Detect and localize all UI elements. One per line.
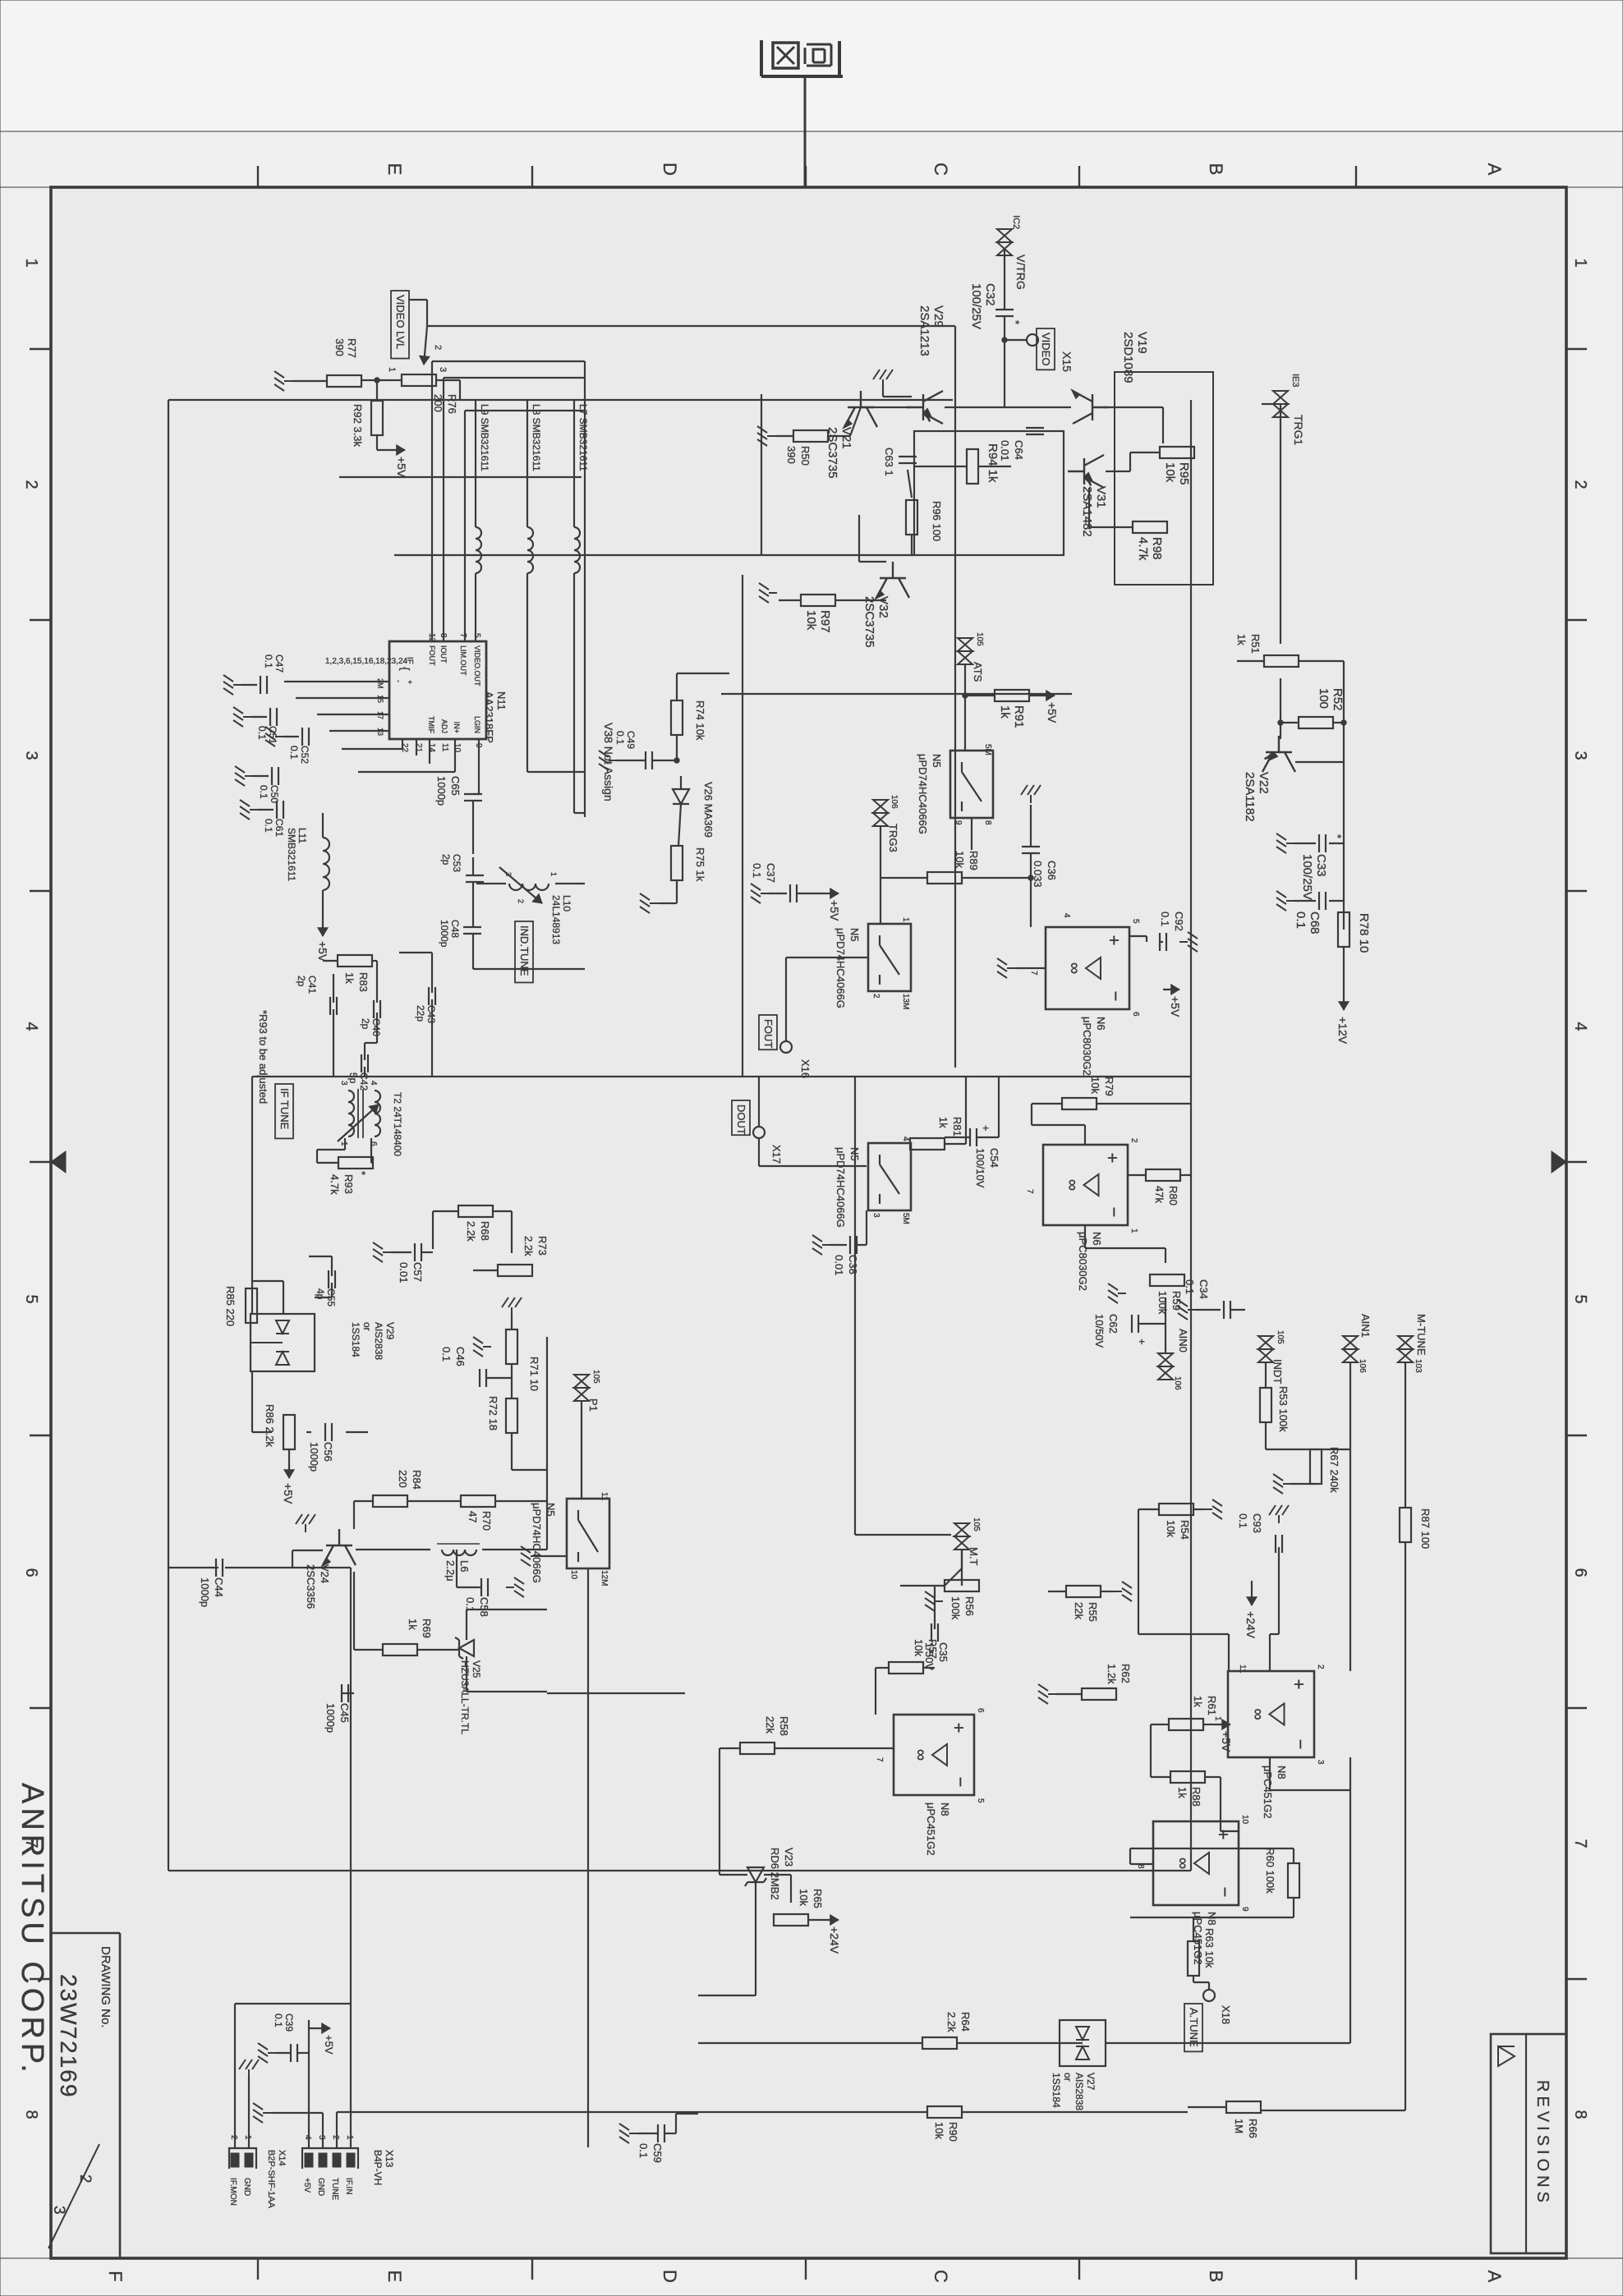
svg-text:FOUT: FOUT [762, 1019, 775, 1048]
svg-text:8: 8 [22, 2110, 40, 2119]
svg-text:AIS2838: AIS2838 [373, 1322, 384, 1360]
power +24V N8c [1251, 1581, 1253, 1605]
svg-text:5M: 5M [901, 1213, 910, 1224]
svg-text:0.1: 0.1 [1294, 912, 1308, 929]
wires R71/R72 [511, 1314, 513, 1329]
svg-text:C37: C37 [765, 863, 777, 883]
capacitor C35 1/50V [937, 1623, 939, 1642]
svg-text:2SA1213: 2SA1213 [917, 305, 931, 356]
svg-text:1: 1 [339, 1141, 348, 1146]
resistor R83 1k [338, 955, 372, 967]
svg-text:10k: 10k [1165, 1520, 1177, 1537]
svg-text:105: 105 [972, 1518, 981, 1531]
inductor L6 2.2u [442, 1550, 476, 1555]
wires N6a [1129, 935, 1147, 937]
svg-text:1000p: 1000p [439, 920, 450, 948]
resistor R87 100 [1400, 1508, 1411, 1542]
wire V21 base to R50, ground [828, 435, 850, 437]
svg-text:R98: R98 [1150, 537, 1164, 560]
svg-text:C93: C93 [1251, 1513, 1263, 1533]
svg-text:∞: ∞ [1064, 1179, 1082, 1191]
svg-text:4: 4 [1571, 1022, 1589, 1031]
svg-text:TRG3: TRG3 [887, 824, 899, 852]
svg-text:X14: X14 [277, 2150, 287, 2166]
svg-text:+: + [1289, 1679, 1309, 1690]
svg-text:9: 9 [1240, 1907, 1249, 1912]
svg-text:C: C [931, 2270, 951, 2283]
svg-text:−: − [1215, 1887, 1235, 1898]
svg-text:1: 1 [901, 917, 910, 922]
svg-text:6: 6 [1131, 1012, 1140, 1017]
svg-text:REVISIONS: REVISIONS [1533, 2080, 1552, 2206]
svg-text:5M: 5M [983, 744, 992, 755]
inductor L11 SMB321611 [323, 838, 329, 890]
svg-text:+: + [980, 1125, 992, 1132]
svg-text:IF TUNE: IF TUNE [278, 1088, 291, 1130]
wire X14 pin1 GND [248, 2078, 250, 2148]
capacitor C37 0.1 [796, 884, 798, 902]
svg-text:V38 Not Assign: V38 Not Assign [602, 723, 615, 801]
svg-text:C36: C36 [1046, 861, 1058, 880]
svg-text:1k: 1k [1176, 1787, 1189, 1798]
wires V26 cluster [676, 673, 678, 700]
svg-text:1: 1 [549, 872, 558, 876]
svg-text:X17: X17 [770, 1145, 783, 1164]
capacitor C48 1000p [463, 926, 481, 928]
power +5V C37 [822, 893, 839, 894]
power +12V [1343, 947, 1345, 985]
svg-text:4.7k: 4.7k [1136, 537, 1150, 561]
resistor R95 10k [1160, 447, 1194, 458]
svg-text:1: 1 [22, 258, 40, 267]
svg-text:C38: C38 [847, 1255, 859, 1274]
wire pot top to x487 bus [435, 379, 460, 381]
svg-text:IOUT: IOUT [439, 645, 448, 664]
svg-text:E: E [384, 2271, 405, 2283]
resistor R55 22k [1066, 1586, 1101, 1597]
svg-text:C33: C33 [1314, 854, 1328, 877]
svg-text:106: 106 [890, 795, 899, 809]
svg-text:1,2,3,6,15,16,18,23,24: 1,2,3,6,15,16,18,23,24 [325, 657, 408, 666]
svg-text:L11: L11 [297, 828, 308, 843]
svg-text:HZU3ALL-TR.TL: HZU3ALL-TR.TL [459, 1660, 471, 1734]
svg-text:0.1: 0.1 [751, 863, 763, 878]
vertical wire x581 [339, 476, 582, 478]
wires coils right [573, 573, 575, 813]
svg-text:2: 2 [433, 345, 443, 350]
svg-text:2SA1182: 2SA1182 [1243, 772, 1257, 822]
dual diode V27 AIS2838/1SS184 [1060, 2020, 1106, 2066]
svg-text:22k: 22k [764, 1716, 776, 1733]
resistor R54 10k [1159, 1504, 1193, 1515]
ground R75 wire [676, 880, 678, 903]
svg-text:2SD1089: 2SD1089 [1121, 332, 1135, 383]
svg-text:5: 5 [22, 1294, 40, 1303]
long top wire [1190, 400, 1192, 1871]
svg-text:1M: 1M [1233, 2119, 1245, 2133]
resistor R62 1.2k [1082, 1688, 1116, 1700]
capacitor C59 0.1 [676, 2113, 698, 2115]
resistor R98 4.7k [1133, 521, 1167, 533]
svg-text:0.01: 0.01 [833, 1255, 845, 1275]
registration mark icon bracket [761, 75, 843, 78]
svg-text:DOUT: DOUT [735, 1104, 747, 1135]
svg-text:R61: R61 [1206, 1696, 1218, 1715]
svg-text:1k: 1k [1235, 634, 1248, 645]
svg-text:μPC451G2: μPC451G2 [1262, 1766, 1274, 1819]
svg-text:R84: R84 [411, 1470, 423, 1490]
registration mark icon glyph [805, 44, 831, 66]
svg-text:10k: 10k [804, 610, 818, 631]
svg-text:6: 6 [22, 1568, 40, 1577]
svg-text:C61: C61 [274, 819, 285, 837]
svg-text:C50: C50 [269, 785, 280, 803]
wire collector rail y813 [954, 326, 956, 1068]
wires coils left [573, 400, 575, 527]
svg-text:24L148913: 24L148913 [550, 895, 562, 944]
svg-text:∞: ∞ [1065, 962, 1083, 974]
svg-text:3: 3 [50, 2206, 67, 2215]
resistor R89 10k [927, 872, 962, 884]
connector IE3 TRG1 [1273, 391, 1288, 417]
resistor R59 100k [1150, 1274, 1184, 1286]
wires V31 region [1130, 452, 1160, 453]
svg-text:4.7k: 4.7k [329, 1174, 341, 1195]
svg-text:R72 18: R72 18 [487, 1396, 499, 1430]
svg-text:2p: 2p [296, 976, 307, 987]
svg-text:L10: L10 [561, 895, 572, 912]
resistor R97 10k [801, 595, 835, 606]
svg-text:*: * [356, 1171, 368, 1175]
svg-text:10: 10 [453, 743, 462, 753]
capacitor C54 100/10V polarized [976, 1128, 977, 1146]
svg-text:10k: 10k [1089, 1077, 1101, 1094]
capacitor C40 2p [379, 1000, 381, 1018]
bias network outline box [914, 431, 1064, 555]
svg-text:C41: C41 [306, 976, 318, 994]
svg-text:M.T: M.T [968, 1547, 980, 1565]
center arrow marks [51, 1151, 66, 1173]
capacitor C50 0.1 with ground [278, 767, 279, 785]
resistor R92 3.3k [371, 401, 383, 435]
svg-text:μPD74HC4066G: μPD74HC4066G [834, 928, 847, 1008]
svg-text:P1: P1 [587, 1398, 600, 1412]
svg-text:C44: C44 [213, 1577, 225, 1597]
svg-text:C92: C92 [1173, 912, 1185, 931]
svg-text:R66: R66 [1247, 2119, 1259, 2138]
svg-text:0.1: 0.1 [258, 785, 269, 799]
svg-text:X18: X18 [1220, 2005, 1232, 2024]
svg-text:5: 5 [1571, 1294, 1589, 1303]
svg-text:8: 8 [983, 820, 992, 825]
svg-text:LIM.OUT: LIM.OUT [459, 645, 467, 676]
svg-text:1: 1 [345, 2135, 354, 2140]
svg-text:A: A [1484, 163, 1505, 176]
resistor R52 100 [1299, 717, 1333, 728]
svg-text:V23: V23 [783, 1848, 795, 1867]
svg-text:2: 2 [1571, 480, 1589, 489]
wires N11 left pins [464, 411, 466, 641]
capacitor C51 0.1 with ground [276, 708, 278, 726]
svg-text:2: 2 [517, 899, 525, 903]
resistor R91 1k [995, 690, 1029, 701]
resistor R66 1M [1226, 2101, 1261, 2113]
svg-text:10k: 10k [933, 2122, 945, 2139]
capacitor C33 100/25V [1325, 834, 1326, 852]
capacitor C57 0.01 [421, 1243, 422, 1261]
svg-text:5p: 5p [347, 1072, 359, 1084]
svg-text:R63 10k: R63 10k [1203, 1928, 1216, 1968]
long wire y1264 [584, 361, 586, 817]
svg-text:1SS184: 1SS184 [350, 1322, 361, 1357]
svg-text:V29: V29 [384, 1322, 396, 1340]
svg-text:V27: V27 [1085, 2073, 1097, 2091]
inductor L7 SMB321611 [574, 527, 580, 573]
svg-text:2: 2 [331, 2135, 340, 2140]
svg-text:R50: R50 [799, 446, 811, 466]
svg-text:T2 24T148400: T2 24T148400 [392, 1092, 403, 1156]
svg-text:0.1: 0.1 [263, 819, 274, 833]
wire TRG3 to N5b [880, 826, 881, 924]
revisions box [1491, 2034, 1566, 2253]
svg-text:R97: R97 [818, 610, 832, 633]
svg-text:V22: V22 [1257, 772, 1271, 794]
svg-text:∞: ∞ [1249, 1708, 1267, 1720]
wire R81 bus [965, 1077, 967, 1144]
capacitor C61 0.1 with ground [283, 801, 284, 819]
svg-text:VIDEO.OUT: VIDEO.OUT [473, 645, 481, 687]
svg-text:1k: 1k [998, 705, 1012, 719]
svg-text:+5V: +5V [1169, 996, 1182, 1017]
svg-text:C58: C58 [478, 1597, 490, 1617]
op-amp N6 uPC8030G2 (b) [1043, 1145, 1128, 1225]
capacitor C53 2p [466, 875, 484, 876]
wire X13 pin1 IF.IN [350, 1568, 352, 2148]
wires N11 right pins [478, 739, 480, 794]
resistor R51 1k [1264, 655, 1299, 667]
resistor R94 1k [967, 449, 978, 484]
svg-text:R73: R73 [536, 1236, 549, 1256]
transistor V22 2SA1182 [1262, 736, 1295, 772]
svg-text:0.1: 0.1 [263, 654, 274, 668]
wires R94/C63/R96 [915, 466, 967, 467]
wires V23 [719, 1748, 720, 1875]
capacitor C36 0.033 [1022, 846, 1040, 847]
capacitor C55 4p [334, 1270, 336, 1288]
wire L11 plus +5V arrow [322, 813, 324, 838]
svg-text:∞: ∞ [1174, 1857, 1192, 1869]
resistor R63 10k [1188, 1941, 1199, 1976]
connector X14 B2P-SHF-1AA [229, 2148, 256, 2169]
svg-text:1: 1 [1129, 1228, 1138, 1233]
wires N6b inputs [1084, 1125, 1086, 1145]
transistor V31 2SA1482 [1068, 455, 1104, 488]
svg-text:N6: N6 [1095, 1017, 1107, 1031]
capacitor C43 22p [434, 987, 436, 1005]
svg-text:IF.MON: IF.MON [228, 2178, 237, 2206]
svg-text:TMIF: TMIF [427, 716, 435, 733]
svg-text:106: 106 [1173, 1376, 1182, 1390]
svg-text:V31: V31 [1094, 486, 1108, 508]
svg-text:0.1: 0.1 [637, 2143, 650, 2158]
svg-text:0.1: 0.1 [440, 1347, 453, 1362]
capacitor C34 0.1 [1230, 1301, 1231, 1319]
long wire x845 emitter rail [721, 693, 1072, 695]
capacitor C93 0.1 [1281, 1535, 1283, 1553]
svg-text:0.1: 0.1 [614, 731, 626, 745]
svg-text:+5V: +5V [828, 900, 841, 921]
svg-text:4: 4 [1062, 913, 1071, 918]
svg-text:R77: R77 [346, 338, 358, 358]
ground near V29 collector [883, 396, 912, 397]
switch N5 uPD74HC4066G (a) [950, 751, 993, 818]
svg-text:R69: R69 [421, 1619, 433, 1638]
svg-text:R81: R81 [951, 1117, 963, 1137]
svg-text:C52: C52 [299, 746, 310, 764]
svg-text:C39: C39 [283, 2014, 295, 2032]
svg-text:C34: C34 [1198, 1279, 1210, 1299]
svg-text:5: 5 [976, 1798, 985, 1803]
svg-text:22: 22 [400, 743, 409, 753]
resistor R69 1k [383, 1644, 417, 1655]
wire ATS to N5a [964, 664, 966, 751]
svg-text:2: 2 [76, 2174, 94, 2183]
svg-text:105: 105 [975, 632, 984, 646]
power +5V R86 [288, 1449, 290, 1462]
resistor R88 1k [1170, 1771, 1205, 1783]
capacitor C46 0.1 [485, 1369, 487, 1387]
svg-text:1.2k: 1.2k [1106, 1664, 1118, 1684]
connector 103 M-TUNE [1398, 1336, 1413, 1362]
large module box left [168, 399, 953, 401]
svg-text:390: 390 [785, 446, 798, 464]
resistor R60 100k [1288, 1863, 1299, 1898]
svg-text:*: * [1331, 834, 1344, 838]
wire X17 to N5c [758, 1138, 760, 1166]
wire X17 left [758, 1077, 760, 1127]
resistor R50 390 [793, 430, 828, 442]
svg-text:2: 2 [22, 480, 40, 489]
svg-text:6: 6 [369, 1141, 378, 1146]
svg-text:2p: 2p [440, 854, 452, 866]
svg-text:B4P-VH: B4P-VH [372, 2150, 384, 2185]
resistor R80 47k [1146, 1169, 1180, 1181]
registration mark center line [804, 78, 807, 187]
svg-text:V/TRG: V/TRG [1014, 255, 1028, 290]
svg-text:+: + [406, 680, 414, 684]
svg-text:7: 7 [875, 1757, 884, 1762]
svg-text:103: 103 [1414, 1359, 1423, 1373]
svg-text:VIDEO: VIDEO [1040, 333, 1052, 365]
svg-text:GND: GND [316, 2178, 325, 2196]
svg-text:N8: N8 [1206, 1912, 1218, 1926]
svg-text:10: 10 [1240, 1815, 1249, 1825]
svg-text:C: C [931, 163, 951, 176]
svg-text:DRAWING No.: DRAWING No. [99, 1946, 113, 2027]
connector X13 B4P-VH [302, 2148, 358, 2169]
inductor L8 SMB321611 [527, 527, 533, 573]
svg-text:105: 105 [591, 1370, 600, 1384]
svg-text:+12V: +12V [1336, 1017, 1349, 1045]
svg-text:R52: R52 [1331, 688, 1345, 711]
svg-text:LGIN: LGIN [473, 716, 481, 733]
svg-text:47k: 47k [1153, 1186, 1166, 1203]
svg-text:C62: C62 [1107, 1314, 1120, 1334]
ground C33 [1329, 843, 1344, 844]
svg-text:R78 10: R78 10 [1357, 913, 1371, 953]
power +5V N6a [1163, 989, 1179, 990]
svg-text:R94 1k: R94 1k [986, 443, 1000, 483]
svg-text:−: − [950, 1777, 971, 1788]
svg-text:1k: 1k [343, 972, 356, 984]
wires IF filter area [433, 1210, 458, 1212]
resistor R73 2.2k [498, 1265, 532, 1276]
power +5V R91 [1029, 695, 1040, 696]
capacitor C92 0.1 [1166, 933, 1167, 951]
svg-text:3: 3 [1316, 1760, 1325, 1765]
svg-text:100k: 100k [1156, 1291, 1169, 1315]
svg-text:9: 9 [954, 820, 963, 825]
svg-text:R90: R90 [947, 2122, 959, 2142]
resistor R74 10k [671, 700, 683, 735]
svg-text:R83: R83 [357, 972, 370, 992]
svg-text:+5V: +5V [302, 2178, 311, 2193]
capacitor C41 2p [336, 997, 338, 1015]
svg-text:2: 2 [1129, 1138, 1138, 1143]
svg-text:1000p: 1000p [435, 776, 448, 806]
svg-text:100/25V: 100/25V [969, 283, 983, 329]
wire X14 pin2 IF.MON [234, 2004, 236, 2148]
transistor V21 2SC3735 [844, 391, 877, 427]
svg-text:B2P-SHF-1AA: B2P-SHF-1AA [266, 2150, 276, 2209]
transistor V29 2SA1213 [907, 391, 943, 424]
wire C32 to emitters junction [1004, 316, 1005, 394]
svg-text:μPD74HC4066G: μPD74HC4066G [531, 1503, 543, 1583]
svg-text:1SS184: 1SS184 [1051, 2073, 1062, 2108]
svg-text:ADJ: ADJ [440, 719, 448, 733]
svg-text:E: E [384, 163, 405, 176]
diode V26 MA369 [673, 789, 689, 804]
svg-text:0.1: 0.1 [1237, 1513, 1249, 1528]
svg-text:2.2k: 2.2k [465, 1221, 477, 1242]
wire TRG1 to V22 [1262, 403, 1273, 405]
svg-text:A.TUNE: A.TUNE [1188, 2008, 1200, 2047]
wires N6b right [1180, 1174, 1191, 1176]
connector 105 P1 [574, 1375, 589, 1401]
svg-text:−: − [1106, 991, 1126, 1002]
resistor R68 2.2k [458, 1205, 493, 1217]
svg-text:3: 3 [1571, 751, 1589, 760]
ground V24 base [296, 1514, 315, 1532]
svg-text:+5V: +5V [1220, 1731, 1233, 1752]
svg-text:L9 SMB321611: L9 SMB321611 [479, 404, 490, 471]
resistor R96 100 [906, 500, 917, 535]
svg-text:4: 4 [369, 1081, 378, 1086]
svg-text:+24V: +24V [828, 1926, 841, 1954]
svg-text:R54: R54 [1179, 1520, 1191, 1540]
boxed label IF TUNE [275, 1084, 293, 1138]
svg-text:F: F [105, 2271, 126, 2281]
capacitor C44 1000p [222, 1559, 223, 1577]
resistor R86 2.2k [283, 1415, 295, 1449]
svg-text:2M: 2M [376, 678, 384, 689]
svg-text:R88: R88 [1190, 1787, 1202, 1807]
svg-text:R91: R91 [1012, 705, 1026, 728]
svg-text:23W72169: 23W72169 [56, 1974, 81, 2098]
svg-text:AIN0: AIN0 [1177, 1329, 1189, 1352]
wires N8b [1151, 1724, 1169, 1725]
svg-text:+5V: +5V [1046, 702, 1059, 723]
